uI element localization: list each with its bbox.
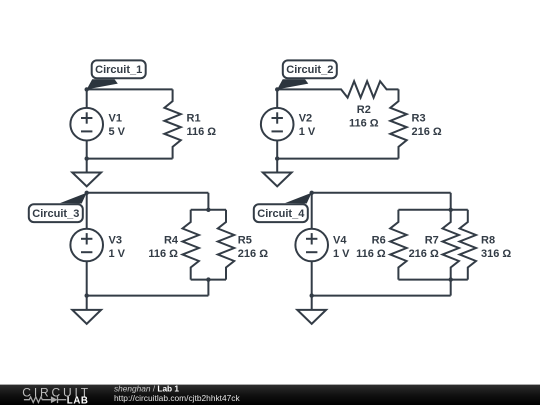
svg-text:316 Ω: 316 Ω xyxy=(481,248,511,260)
svg-text:R5: R5 xyxy=(238,234,252,246)
label R5 value xyxy=(238,234,268,259)
resistor R3 xyxy=(390,89,406,158)
voltage source V3 xyxy=(70,229,103,262)
wire C4 top drop to bar xyxy=(450,193,452,210)
wire C2 bottom xyxy=(277,158,398,160)
svg-text:116 Ω: 116 Ω xyxy=(187,126,217,138)
resistor R2 with top wire xyxy=(277,81,398,97)
label R3 value xyxy=(412,113,442,139)
label R8 value xyxy=(481,234,511,259)
svg-text:116 Ω: 116 Ω xyxy=(349,118,379,130)
resistor R7 xyxy=(443,210,459,280)
svg-text:V1: V1 xyxy=(109,113,122,125)
wire C2 left (through V2) xyxy=(276,89,278,158)
node C3 top-left junction xyxy=(85,191,89,195)
svg-text:shenghan / Lab 1: shenghan / Lab 1 xyxy=(114,383,179,393)
svg-text:Circuit_3: Circuit_3 xyxy=(32,208,79,220)
label R6 value xyxy=(356,234,386,259)
resistor R4 xyxy=(183,210,199,280)
svg-text:1 V: 1 V xyxy=(333,248,350,260)
wire C4 bottom xyxy=(312,295,451,297)
node C1 bottom-left junction xyxy=(85,156,89,160)
svg-text:5 V: 5 V xyxy=(109,126,126,138)
resistor R1 xyxy=(164,89,180,158)
node C1 top-left junction xyxy=(85,87,89,91)
label V2 value xyxy=(299,113,316,139)
label R4 value xyxy=(148,234,179,259)
svg-text:Circuit_2: Circuit_2 xyxy=(286,64,333,76)
wire C2 right (R3 branch top stub) xyxy=(398,89,400,101)
node flag Circuit_1 xyxy=(87,60,146,89)
node flag Circuit_3 xyxy=(29,193,87,222)
ground C4 xyxy=(297,296,326,324)
svg-text:R6: R6 xyxy=(372,234,386,246)
wire C1 top xyxy=(87,88,173,90)
svg-text:Circuit_1: Circuit_1 xyxy=(95,64,142,76)
svg-text:1 V: 1 V xyxy=(299,126,316,138)
wire C3 bottom bar xyxy=(191,279,226,281)
wire C3 top xyxy=(87,192,209,194)
node C4 parallel bottom junction xyxy=(449,277,453,281)
svg-text:V2: V2 xyxy=(299,113,312,125)
svg-text:Circuit_4: Circuit_4 xyxy=(257,208,305,220)
wire C3 bottom xyxy=(87,295,209,297)
svg-text:R4: R4 xyxy=(164,234,179,246)
node C3 parallel top junction xyxy=(206,208,210,212)
node C4 parallel top junction xyxy=(449,208,453,212)
svg-text:R2: R2 xyxy=(357,104,371,116)
label R2 value xyxy=(349,104,379,130)
node C3 bottom-left junction xyxy=(85,293,89,297)
label V1 value xyxy=(109,113,126,139)
node C4 top-left junction xyxy=(310,191,314,195)
voltage source V1 xyxy=(70,108,103,141)
svg-text:R7: R7 xyxy=(425,234,439,246)
svg-text:1 V: 1 V xyxy=(109,248,126,260)
label R7 value xyxy=(409,234,439,259)
svg-text:116 Ω: 116 Ω xyxy=(148,248,178,260)
node C2 bottom-left junction xyxy=(275,156,279,160)
resistor R6 xyxy=(390,210,406,280)
ground C1 xyxy=(72,158,101,186)
wire C4 bottom bar xyxy=(398,279,467,281)
svg-text:R3: R3 xyxy=(412,113,426,125)
svg-text:V4: V4 xyxy=(333,234,347,246)
voltage source V4 xyxy=(295,229,328,262)
node C3 parallel bottom junction xyxy=(206,277,210,281)
svg-text:R1: R1 xyxy=(187,113,201,125)
wire C4 left (through V4) xyxy=(311,193,313,296)
ground C3 xyxy=(72,296,101,324)
svg-text:http://circuitlab.com/cjtb2hhk: http://circuitlab.com/cjtb2hhkt47ck xyxy=(114,393,240,403)
svg-text:216 Ω: 216 Ω xyxy=(412,126,442,138)
resistor R5 xyxy=(218,210,234,280)
node C2 top-left junction xyxy=(275,87,279,91)
voltage source V2 xyxy=(261,108,294,141)
wire C3 left (through V3) xyxy=(86,193,88,296)
label V3 value xyxy=(109,234,126,259)
label V4 value xyxy=(333,234,350,259)
wire C4 top xyxy=(312,192,451,194)
svg-text:216 Ω: 216 Ω xyxy=(409,248,439,260)
svg-text:V3: V3 xyxy=(109,234,122,246)
node C4 bottom-left junction xyxy=(310,293,314,297)
logo resistor-diode glyph xyxy=(24,396,66,403)
label R1 value xyxy=(187,113,217,139)
svg-text:R8: R8 xyxy=(481,234,495,246)
ground C2 xyxy=(263,158,292,186)
resistor R8 xyxy=(460,210,476,280)
wire C3 top bar xyxy=(191,209,226,211)
svg-text:216 Ω: 216 Ω xyxy=(238,248,268,260)
wire C4 top bar xyxy=(398,209,467,211)
wire C4 bar drop to bottom xyxy=(450,280,452,296)
node flag Circuit_2 xyxy=(277,60,337,89)
wire C3 bar drop to bottom xyxy=(207,280,209,296)
wire C1 left (through V1) xyxy=(86,89,88,158)
wire C1 bottom xyxy=(87,158,173,160)
node flag Circuit_4 xyxy=(254,193,312,222)
svg-text:116 Ω: 116 Ω xyxy=(356,248,386,260)
footer background bar xyxy=(0,385,540,405)
svg-text:LAB: LAB xyxy=(67,395,89,405)
wire C3 top drop to bar xyxy=(207,193,209,210)
